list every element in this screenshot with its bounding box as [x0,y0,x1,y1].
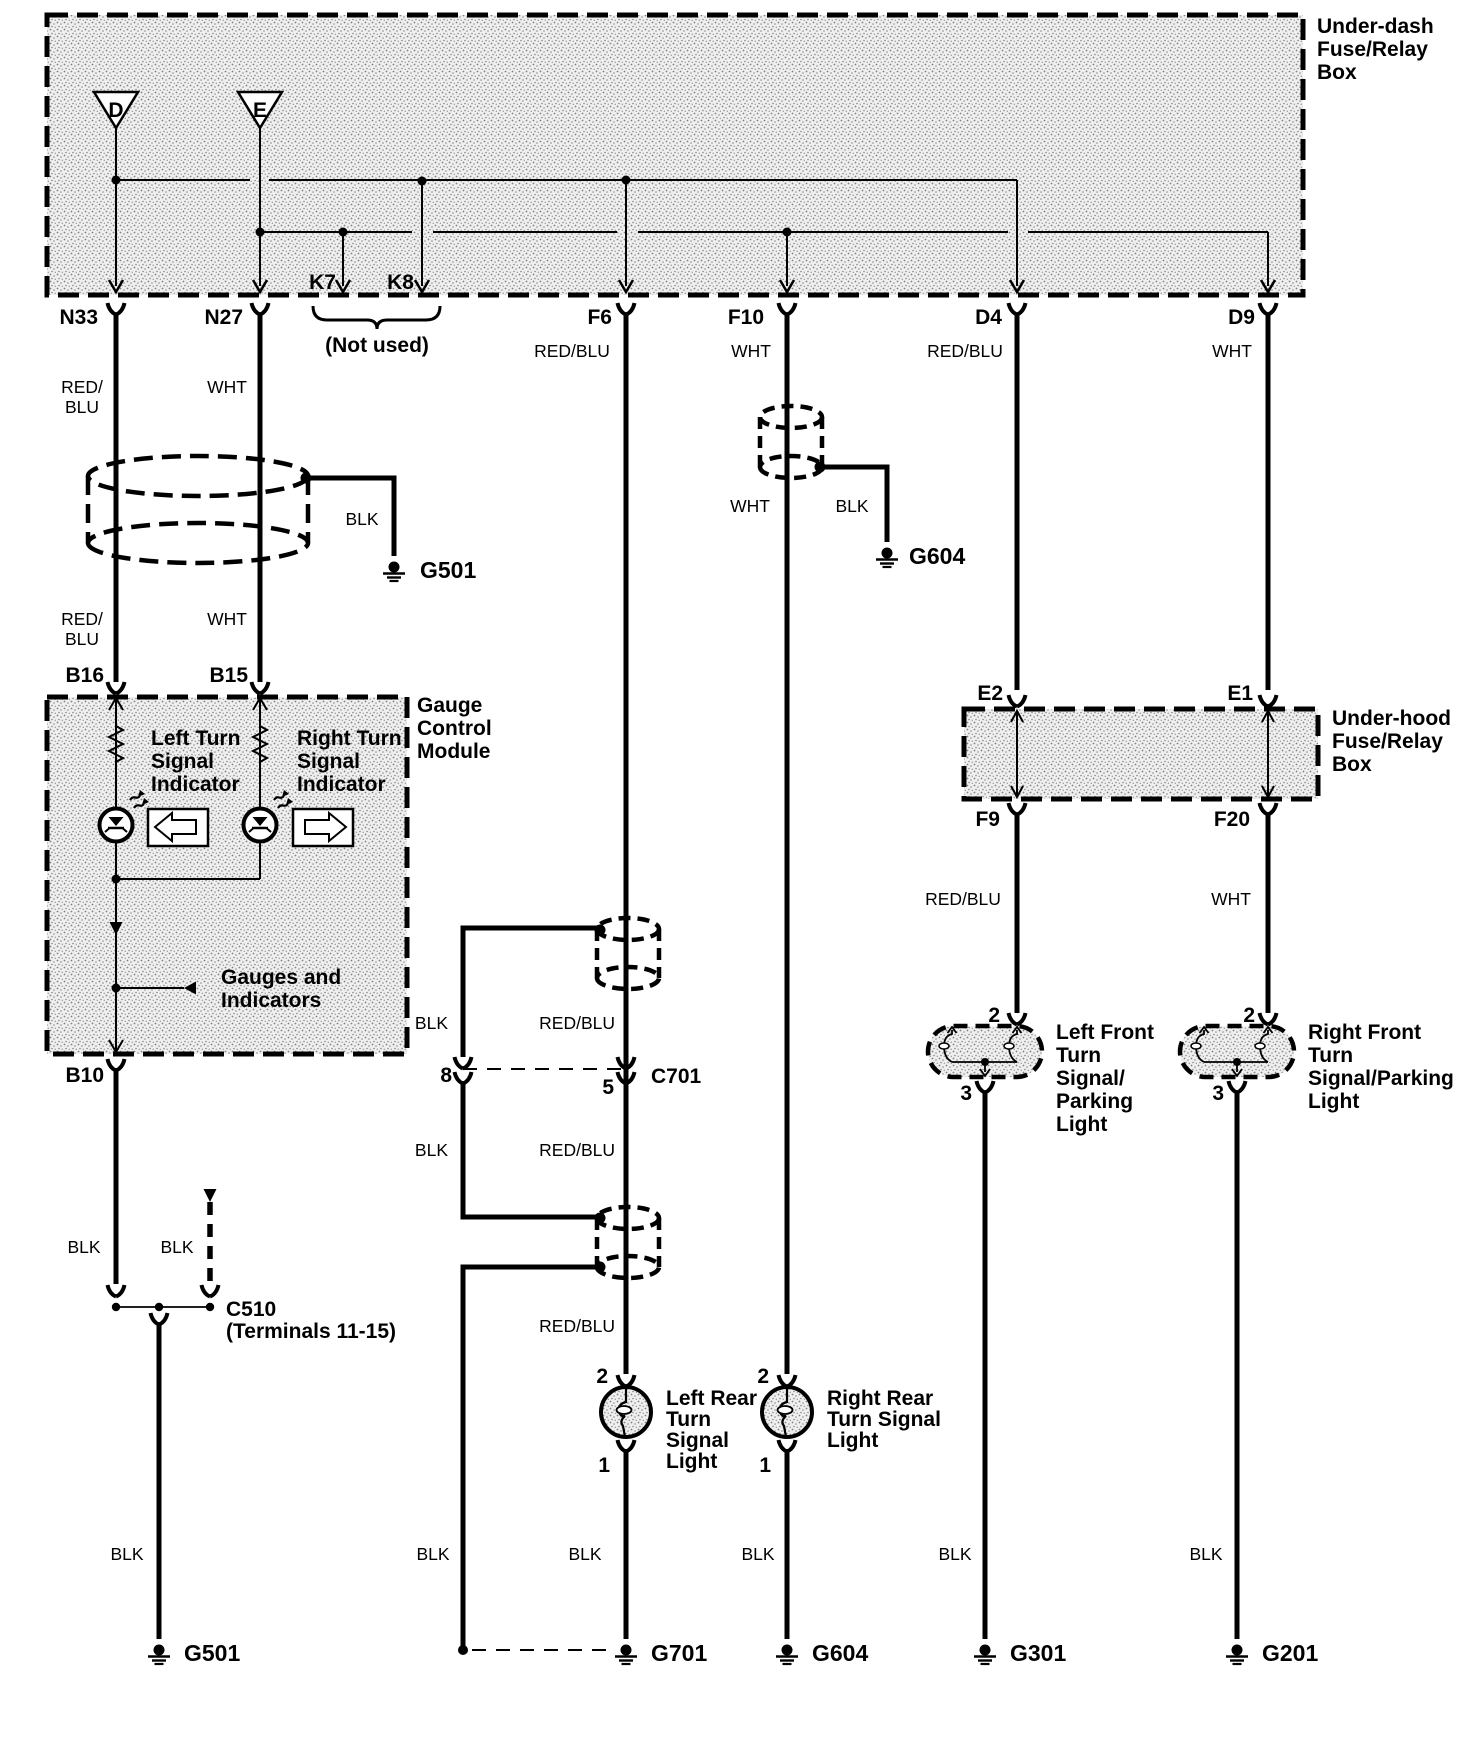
svg-text:Left Turn: Left Turn [151,727,240,750]
svg-text:1: 1 [598,1454,610,1477]
svg-text:WHT: WHT [1211,889,1251,909]
svg-text:RED/: RED/ [61,609,103,629]
svg-text:Turn Signal: Turn Signal [827,1408,941,1431]
svg-text:2: 2 [757,1365,769,1388]
svg-text:BLU: BLU [65,397,99,417]
svg-text:Control: Control [417,717,492,740]
svg-text:G604: G604 [909,543,965,569]
svg-text:Fuse/Relay: Fuse/Relay [1317,38,1428,61]
svg-text:Indicators: Indicators [221,989,321,1012]
svg-text:Signal/Parking: Signal/Parking [1308,1067,1454,1090]
svg-text:RED/BLU: RED/BLU [925,889,1001,909]
svg-text:F6: F6 [587,306,612,329]
svg-text:Turn: Turn [1308,1044,1353,1067]
svg-text:D9: D9 [1228,306,1255,329]
svg-text:RED/: RED/ [61,377,103,397]
svg-text:Left Rear: Left Rear [666,1387,757,1410]
svg-text:F20: F20 [1214,808,1250,831]
svg-text:1: 1 [759,1454,771,1477]
svg-text:BLK: BLK [110,1544,143,1564]
svg-text:B16: B16 [65,664,104,687]
svg-text:8: 8 [440,1064,452,1087]
svg-text:Gauges and: Gauges and [221,966,341,989]
svg-text:G701: G701 [651,1640,707,1666]
svg-text:G501: G501 [184,1640,240,1666]
svg-text:Light: Light [1056,1113,1107,1136]
svg-text:RED/BLU: RED/BLU [539,1140,615,1160]
svg-text:B10: B10 [65,1064,104,1087]
svg-text:Module: Module [417,740,491,763]
svg-text:3: 3 [1212,1082,1224,1105]
svg-text:G201: G201 [1262,1640,1318,1666]
svg-text:E1: E1 [1227,682,1253,705]
svg-text:WHT: WHT [1212,341,1252,361]
svg-text:(Not used): (Not used) [325,334,429,357]
svg-text:G501: G501 [420,557,476,583]
svg-text:BLK: BLK [1189,1544,1222,1564]
svg-text:WHT: WHT [730,496,770,516]
svg-text:RED/BLU: RED/BLU [539,1013,615,1033]
svg-text:D4: D4 [975,306,1002,329]
svg-text:Left Front: Left Front [1056,1021,1154,1044]
svg-text:WHT: WHT [731,341,771,361]
svg-text:2: 2 [1243,1004,1255,1027]
svg-text:Light: Light [827,1429,878,1452]
svg-text:BLK: BLK [568,1544,601,1564]
svg-text:G604: G604 [812,1640,868,1666]
svg-text:Signal: Signal [151,750,214,773]
svg-text:3: 3 [960,1082,972,1105]
svg-text:Gauge: Gauge [417,694,482,717]
svg-text:RED/BLU: RED/BLU [539,1316,615,1336]
svg-text:B15: B15 [209,664,248,687]
svg-text:2: 2 [988,1004,1000,1027]
svg-text:Turn: Turn [666,1408,711,1431]
svg-text:RED/BLU: RED/BLU [927,341,1003,361]
svg-text:K7: K7 [309,271,336,294]
svg-text:(Terminals 11-15): (Terminals 11-15) [226,1320,396,1343]
svg-text:RED/BLU: RED/BLU [534,341,610,361]
svg-text:F9: F9 [975,808,1000,831]
svg-text:Signal: Signal [666,1429,729,1452]
svg-text:Light: Light [666,1450,717,1473]
svg-text:BLK: BLK [938,1544,971,1564]
svg-text:Right Front: Right Front [1308,1021,1421,1044]
svg-text:Indicator: Indicator [297,773,386,796]
svg-text:Right Turn: Right Turn [297,727,402,750]
svg-text:BLU: BLU [65,629,99,649]
svg-text:WHT: WHT [207,609,247,629]
svg-text:Under-dash: Under-dash [1317,15,1434,38]
svg-text:G301: G301 [1010,1640,1066,1666]
svg-text:BLK: BLK [835,496,868,516]
svg-text:N27: N27 [204,306,243,329]
svg-text:E: E [253,99,267,122]
svg-text:D: D [108,99,123,122]
svg-text:Indicator: Indicator [151,773,240,796]
svg-text:N33: N33 [59,306,98,329]
svg-text:Signal: Signal [297,750,360,773]
svg-text:C510: C510 [226,1298,276,1321]
svg-text:Box: Box [1317,61,1357,84]
svg-text:BLK: BLK [345,509,378,529]
svg-text:BLK: BLK [415,1013,448,1033]
svg-text:Signal/: Signal/ [1056,1067,1125,1090]
svg-text:E2: E2 [977,682,1003,705]
svg-text:Right Rear: Right Rear [827,1387,933,1410]
svg-text:BLK: BLK [67,1237,100,1257]
svg-text:Light: Light [1308,1090,1359,1113]
svg-text:Fuse/Relay: Fuse/Relay [1332,730,1443,753]
svg-text:Box: Box [1332,753,1372,776]
svg-text:5: 5 [602,1076,614,1099]
svg-text:BLK: BLK [741,1544,774,1564]
svg-text:2: 2 [596,1365,608,1388]
svg-text:Turn: Turn [1056,1044,1101,1067]
svg-text:F10: F10 [728,306,764,329]
svg-text:Parking: Parking [1056,1090,1133,1113]
svg-text:Under-hood: Under-hood [1332,707,1451,730]
svg-text:BLK: BLK [415,1140,448,1160]
svg-text:BLK: BLK [416,1544,449,1564]
svg-text:C701: C701 [651,1065,702,1088]
svg-text:K8: K8 [387,271,414,294]
svg-text:WHT: WHT [207,377,247,397]
svg-text:BLK: BLK [160,1237,193,1257]
